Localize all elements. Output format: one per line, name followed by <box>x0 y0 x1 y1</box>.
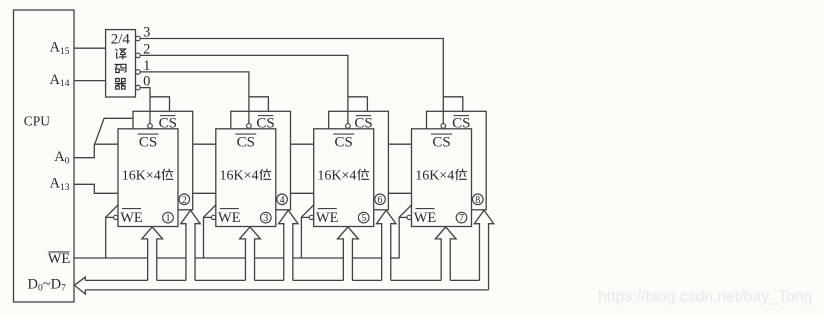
wire WE riser group 4 <box>399 217 408 258</box>
svg-text:16K×4: 16K×4 <box>415 168 454 183</box>
chip number label 3 (circled) <box>261 212 272 224</box>
wire address A13 chain group 2 to 3 <box>291 192 314 194</box>
CS bubble chip 3 <box>247 124 252 129</box>
svg-text:16K×4: 16K×4 <box>219 168 258 183</box>
svg-text:4: 4 <box>280 195 285 206</box>
svg-text:3: 3 <box>263 213 268 224</box>
pin label A14 <box>50 72 70 89</box>
wire CS branch to back chip 8 <box>443 97 463 112</box>
wire WE diagonal to back chip 8 <box>399 205 412 218</box>
svg-text:8: 8 <box>475 195 480 206</box>
value label 16Kx4bit chip 1 <box>122 168 173 183</box>
wire WE riser group 3 <box>301 217 310 258</box>
chip number label 1 (circled) <box>163 212 174 224</box>
memory chip 5 (front, 16Kx4) <box>314 129 374 227</box>
chip number label 8 (circled) <box>473 194 484 206</box>
wire WE diagonal to back chip 4 <box>204 205 217 218</box>
pin label WE-bar chip 7 <box>414 209 437 226</box>
svg-text:WE: WE <box>316 210 339 226</box>
data bus D0~D7 arrowhead into CPU <box>74 277 85 294</box>
memory chip 6 (back, 16Kx4) <box>329 111 389 210</box>
svg-text:5: 5 <box>361 213 366 224</box>
data arrow into chip 8 <box>474 210 494 290</box>
wire WE riser group 2 <box>203 217 212 258</box>
data arrow into chip 1 <box>142 227 163 281</box>
pin label WE-bar chip 3 <box>218 209 241 226</box>
WE bubble chip 1 <box>114 215 118 219</box>
wire address A13 chain group 3 to 4 <box>388 192 411 194</box>
pin label A0 <box>54 149 69 166</box>
decoder output bubble 0 <box>136 85 141 90</box>
pin label A13 <box>50 176 70 193</box>
wire address A13 chain group 1 to 2 <box>193 192 216 194</box>
svg-text:1: 1 <box>166 213 171 224</box>
WE bubble chip 5 <box>309 215 313 219</box>
chip number label 4 (circled) <box>277 194 288 206</box>
svg-text:D0~D7: D0~D7 <box>28 276 67 293</box>
memory chip 8 (back, 16Kx4) <box>427 111 487 210</box>
wire WE diagonal to back chip 6 <box>301 205 314 218</box>
wire CS branch to back chip 2 <box>150 97 170 112</box>
wire CS branch to back chip 4 <box>249 97 269 112</box>
svg-text:7: 7 <box>459 213 464 224</box>
svg-text:16K×4: 16K×4 <box>122 168 161 183</box>
data arrow into chip 7 <box>435 227 456 281</box>
data arrow into chip 4 <box>279 210 299 280</box>
chip number label 5 (circled) <box>358 212 369 224</box>
chip number label 6 (circled) <box>375 194 386 206</box>
data arrow into chip 2 <box>181 210 201 280</box>
decoder output label 1 <box>143 58 150 74</box>
svg-text:WE: WE <box>414 210 437 226</box>
svg-text:2: 2 <box>182 195 187 206</box>
svg-text:WE: WE <box>120 210 143 226</box>
CS bubble chip 1 <box>148 124 153 129</box>
wire A13 (CPU to chip 1) <box>74 184 118 193</box>
wire decoder output 1 to chip-select group 2 <box>140 72 249 124</box>
svg-text:6: 6 <box>378 195 383 206</box>
wire A0 branch to back chip 2 (diagonal) <box>95 118 133 143</box>
pin label D0~D7 <box>28 276 67 293</box>
chip number label 2 (circled) <box>179 194 190 206</box>
decoder label glyph wei(bit) chip1 <box>162 169 173 180</box>
svg-text:https://blog.csdn.net/bay_Tong: https://blog.csdn.net/bay_Tong <box>598 289 812 306</box>
memory chip 7 (front, 16Kx4) <box>412 129 472 227</box>
wire decoder output 0 to chip-select group 1 <box>140 88 150 124</box>
data arrow into chip 5 <box>338 227 359 281</box>
value label 16Kx4bit chip 5 <box>317 168 368 183</box>
memory chip 2 (back, 16Kx4) <box>133 111 193 210</box>
wire A15 (CPU to decoder) <box>74 47 106 49</box>
value label 16Kx4bit chip 3 <box>219 168 270 183</box>
decoder output bubble 2 <box>136 53 141 58</box>
svg-text:WE: WE <box>218 210 241 226</box>
WE bubble chip 3 <box>211 215 215 219</box>
memory chip 4 (back, 16Kx4) <box>231 111 291 210</box>
data arrow into chip 3 <box>240 227 261 281</box>
data bus top line segments <box>85 279 479 281</box>
decoder label glyph wei(bit) chip3 <box>260 169 271 180</box>
data bus bottom line <box>85 289 488 291</box>
value label 16Kx4bit chip 7 <box>415 168 466 183</box>
decoder label glyph ma(code) <box>115 64 126 72</box>
svg-text:CS: CS <box>432 134 450 150</box>
decoder output bubble 1 <box>136 70 141 75</box>
svg-text:WE: WE <box>48 251 71 267</box>
WE bubble chip 7 <box>407 215 411 219</box>
data arrow into chip 6 <box>376 210 396 280</box>
decoder label glyph yi(translate) <box>116 49 126 59</box>
svg-text:CS: CS <box>139 134 157 150</box>
decoder label glyph wei(bit) chip5 <box>358 169 369 180</box>
svg-text:CS: CS <box>335 134 353 150</box>
pin label WE-bar (CPU) <box>48 251 71 267</box>
wire WE riser group 1 <box>105 217 114 258</box>
wire decoder output 3 to chip-select group 4 <box>140 39 443 124</box>
wire WE diagonal to back chip 2 <box>106 205 119 218</box>
wire address A0 chain group 1 to 2 <box>193 143 216 145</box>
svg-text:CS: CS <box>237 134 255 150</box>
decoder output bubble 3 <box>136 36 141 41</box>
wire CS branch to back chip 6 <box>348 97 368 112</box>
CS bubble chip 5 <box>346 124 351 129</box>
wire address A0 chain group 2 to 3 <box>291 143 314 145</box>
memory chip 1 (front, 16Kx4) <box>118 129 178 227</box>
svg-text:2/4: 2/4 <box>111 32 131 48</box>
CS bubble chip 7 <box>441 124 446 129</box>
decoder label glyph qi(device) <box>115 79 125 90</box>
pin label WE-bar chip 5 <box>316 209 339 226</box>
decoder label glyph wei(bit) chip7 <box>456 169 467 180</box>
wire A0 (CPU to chip 1) <box>74 144 118 158</box>
pin label WE-bar chip 1 <box>120 209 143 226</box>
decoder output label 3 <box>143 25 150 41</box>
wire decoder output 2 to chip-select group 3 <box>140 55 348 123</box>
pin label A15 <box>50 39 70 56</box>
decoder output label 2 <box>143 41 150 57</box>
decoder U1 (2/4 translator) <box>106 30 136 97</box>
svg-text:16K×4: 16K×4 <box>317 168 356 183</box>
memory chip 3 (front, 16Kx4) <box>216 129 276 227</box>
svg-text:CPU: CPU <box>24 113 51 128</box>
chip number label 7 (circled) <box>456 212 467 224</box>
decoder output label 0 <box>143 74 150 90</box>
CPU U0 block <box>14 10 75 302</box>
wire address A0 chain group 3 to 4 <box>388 143 411 145</box>
wire A14 (CPU to decoder) <box>74 80 106 82</box>
wire WE-bar bus (CPU to chips) <box>74 257 399 259</box>
